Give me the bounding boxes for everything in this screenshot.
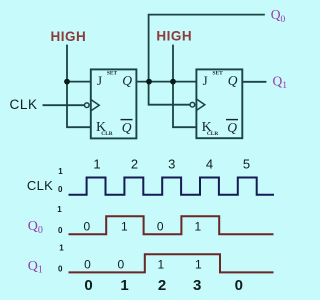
- svg-text:SET: SET: [107, 71, 118, 77]
- wire riser to top rail and drop to U2 clock: [149, 15, 265, 105]
- wire U1 Q output across to U2 J input: [136, 81, 196, 83]
- svg-text:HIGH: HIGH: [51, 29, 87, 44]
- CLK waveform: [69, 178, 275, 195]
- svg-text:5: 5: [243, 157, 250, 172]
- svg-text:1: 1: [121, 219, 128, 233]
- svg-text:3: 3: [168, 157, 175, 172]
- svg-text:0: 0: [83, 219, 90, 233]
- svg-text:4: 4: [206, 157, 213, 172]
- svg-text:0: 0: [58, 264, 63, 273]
- svg-text:Q: Q: [228, 73, 238, 88]
- wire U2 Q output to Q1 label: [243, 81, 267, 83]
- svg-text:SET: SET: [212, 71, 223, 77]
- svg-text:0: 0: [84, 258, 91, 272]
- svg-text:CLR: CLR: [101, 131, 112, 137]
- svg-text:1: 1: [58, 167, 63, 176]
- svg-text:J: J: [203, 73, 208, 88]
- svg-text:Q: Q: [122, 120, 132, 135]
- U2 clock bubble: [190, 102, 195, 107]
- svg-text:0: 0: [235, 277, 243, 294]
- svg-text:2: 2: [131, 157, 138, 172]
- Q1 waveform: [69, 254, 274, 272]
- svg-text:1: 1: [120, 277, 128, 294]
- wire HIGH1 vertical down and bend to K1 input: [67, 45, 91, 128]
- svg-text:HIGH: HIGH: [156, 28, 192, 43]
- svg-text:0: 0: [117, 258, 124, 272]
- svg-text:CLK: CLK: [10, 97, 38, 112]
- svg-text:1: 1: [57, 205, 62, 214]
- node junction dot on HIGH1/J1: [64, 79, 70, 85]
- U1 clock bubble: [85, 103, 90, 108]
- svg-text:0: 0: [84, 277, 92, 294]
- svg-text:0: 0: [58, 226, 63, 235]
- flip-flop U1 box: [91, 69, 137, 138]
- Q0 waveform: [69, 216, 274, 234]
- node junction dot on HIGH2/J2: [170, 79, 176, 85]
- wire HIGH2 vertical down and bend to K2 input: [173, 45, 196, 128]
- svg-text:CLK: CLK: [27, 178, 53, 193]
- svg-text:CLR: CLR: [207, 131, 218, 137]
- svg-text:J: J: [97, 73, 102, 88]
- svg-text:Q: Q: [227, 120, 237, 135]
- svg-text:3: 3: [193, 277, 201, 294]
- wire J1 input from HIGH1 line: [67, 81, 91, 83]
- svg-text:1: 1: [59, 244, 64, 253]
- svg-text:0: 0: [58, 185, 63, 194]
- node junction dot riser/Q line: [146, 79, 152, 85]
- flip-flop U2 box: [196, 69, 242, 138]
- U1 clock edge triangle: [91, 100, 99, 111]
- svg-text:0: 0: [157, 219, 164, 233]
- U2 clock edge triangle: [197, 99, 205, 110]
- svg-text:1: 1: [93, 157, 100, 172]
- wire CLK lead to FF1 clock bubble: [43, 104, 85, 106]
- svg-text:1: 1: [157, 258, 164, 272]
- svg-text:Q: Q: [122, 73, 132, 88]
- svg-text:1: 1: [194, 219, 201, 233]
- svg-text:1: 1: [195, 258, 202, 272]
- svg-text:2: 2: [158, 277, 166, 294]
